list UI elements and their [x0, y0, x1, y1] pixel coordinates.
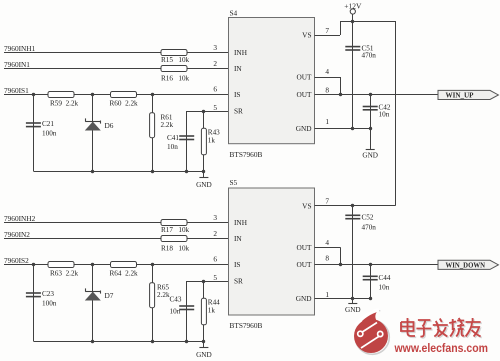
- svg-text:1: 1: [325, 117, 329, 126]
- svg-text:C44: C44: [379, 274, 391, 282]
- svg-text:GND: GND: [296, 124, 312, 133]
- svg-text:IN: IN: [234, 64, 242, 73]
- svg-text:S4: S4: [230, 8, 238, 17]
- svg-text:INH: INH: [234, 48, 248, 57]
- svg-text:C41: C41: [167, 134, 179, 142]
- svg-text:BTS7960B: BTS7960B: [230, 150, 263, 159]
- svg-text:10n: 10n: [170, 308, 181, 316]
- svg-text:R63 2.2k: R63 2.2k: [50, 270, 79, 278]
- svg-text:WIN_UP: WIN_UP: [446, 93, 475, 100]
- svg-text:7960INH2: 7960INH2: [4, 214, 36, 223]
- svg-text:GND: GND: [196, 181, 212, 189]
- svg-text:3: 3: [213, 213, 217, 222]
- svg-text:4: 4: [325, 67, 329, 76]
- svg-text:R17 10k: R17 10k: [161, 226, 190, 234]
- svg-text:100n: 100n: [42, 299, 57, 307]
- svg-text:10n: 10n: [167, 143, 178, 151]
- svg-text:BTS7960B: BTS7960B: [230, 321, 263, 330]
- svg-text:5: 5: [213, 273, 217, 282]
- svg-text:OUT: OUT: [297, 73, 313, 82]
- svg-text:2.2k: 2.2k: [161, 121, 174, 129]
- svg-text:7960IN2: 7960IN2: [4, 230, 30, 239]
- svg-text:10n: 10n: [379, 111, 390, 119]
- svg-text:OUT: OUT: [297, 90, 313, 99]
- svg-text:100n: 100n: [42, 129, 57, 137]
- svg-text:C23: C23: [42, 290, 54, 298]
- svg-text:IN: IN: [234, 234, 242, 243]
- svg-text:1k: 1k: [208, 137, 216, 145]
- svg-text:SR: SR: [234, 107, 243, 116]
- svg-text:2.2k: 2.2k: [157, 291, 170, 299]
- svg-text:6: 6: [213, 255, 217, 264]
- svg-text:INH: INH: [234, 218, 248, 227]
- svg-text:3: 3: [213, 43, 217, 52]
- svg-text:OUT: OUT: [297, 260, 313, 269]
- svg-text:1k: 1k: [208, 307, 216, 315]
- svg-text:D7: D7: [105, 291, 114, 300]
- svg-text:D6: D6: [105, 121, 114, 130]
- svg-text:470n: 470n: [362, 51, 377, 59]
- svg-text:1: 1: [325, 290, 329, 299]
- svg-text:R64 2.2k: R64 2.2k: [110, 270, 139, 278]
- svg-text:WIN_DOWN: WIN_DOWN: [446, 262, 486, 269]
- svg-text:GND: GND: [345, 306, 361, 314]
- svg-text:5: 5: [213, 103, 217, 112]
- svg-text:8: 8: [325, 253, 329, 262]
- svg-text:R43: R43: [208, 129, 220, 137]
- svg-text:www.elecfans.com: www.elecfans.com: [394, 341, 488, 355]
- svg-text:R16 10k: R16 10k: [161, 75, 190, 83]
- svg-text:R44: R44: [208, 299, 220, 307]
- svg-text:7960INH1: 7960INH1: [4, 44, 36, 53]
- svg-text:VS: VS: [302, 31, 311, 40]
- svg-text:7960IS1: 7960IS1: [4, 86, 29, 95]
- svg-text:4: 4: [325, 238, 329, 247]
- svg-text:2: 2: [213, 59, 217, 68]
- svg-text:IS: IS: [234, 90, 241, 99]
- svg-text:GND: GND: [362, 151, 378, 159]
- svg-text:C52: C52: [362, 213, 374, 221]
- svg-text:VS: VS: [302, 201, 311, 210]
- svg-text:R18 10k: R18 10k: [161, 245, 190, 253]
- svg-text:OUT: OUT: [297, 243, 313, 252]
- svg-text:470n: 470n: [362, 224, 377, 232]
- svg-text:2: 2: [213, 229, 217, 238]
- svg-text:GND: GND: [296, 294, 312, 303]
- svg-text:8: 8: [325, 85, 329, 94]
- svg-text:R59 2.2k: R59 2.2k: [50, 100, 79, 108]
- svg-text:7: 7: [325, 26, 329, 35]
- svg-text:+12V: +12V: [344, 2, 362, 11]
- svg-text:7: 7: [325, 196, 329, 205]
- svg-text:C21: C21: [42, 120, 54, 128]
- svg-text:S5: S5: [230, 178, 238, 187]
- svg-text:7960IN1: 7960IN1: [4, 60, 30, 69]
- svg-text:6: 6: [213, 85, 217, 94]
- svg-text:R60 2.2k: R60 2.2k: [110, 100, 139, 108]
- svg-text:SR: SR: [234, 277, 243, 286]
- svg-text:7960IS2: 7960IS2: [4, 256, 29, 265]
- svg-text:10n: 10n: [379, 284, 390, 292]
- svg-text:GND: GND: [196, 351, 212, 359]
- svg-text:IS: IS: [234, 260, 241, 269]
- svg-text:R15 10k: R15 10k: [161, 56, 190, 64]
- svg-text:C43: C43: [170, 296, 182, 304]
